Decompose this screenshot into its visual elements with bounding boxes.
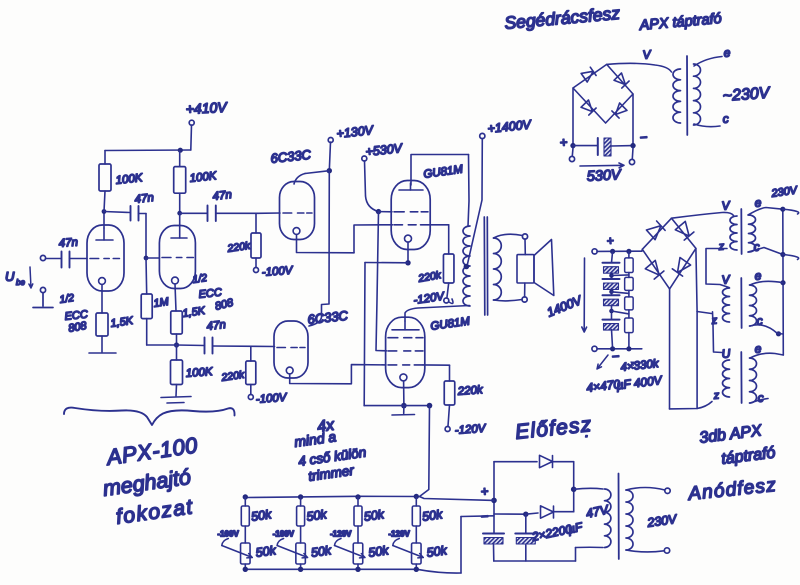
- wire T3 c stub: [750, 399, 768, 404]
- node res top: [626, 249, 631, 254]
- terminal 530V plus: [571, 148, 574, 156]
- wire diode2 c: [554, 511, 574, 513]
- svg-text:c: c: [722, 112, 729, 126]
- terminal T5 top: [665, 488, 670, 493]
- coil T3 primary: [723, 360, 730, 397]
- terminal +130V: [328, 138, 333, 143]
- svg-text:+530V: +530V: [365, 141, 404, 159]
- wire T5 sec top: [626, 488, 665, 491]
- svg-text:-100V: -100V: [217, 530, 239, 539]
- svg-text:1400V: 1400V: [545, 293, 585, 320]
- wire B1 north to T4: [607, 63, 672, 72]
- capacitor C3 47n: [205, 338, 213, 354]
- resistor R11 330k d: [625, 318, 634, 333]
- diode B1 SW: [581, 100, 596, 115]
- wire elofesz top rail left: [494, 461, 537, 463]
- svg-text:-100V: -100V: [255, 392, 288, 406]
- svg-text:−: −: [611, 348, 620, 364]
- wire V5 cathode down: [407, 242, 409, 263]
- wire B2 north to T1: [672, 212, 734, 218]
- resistor R8 220k: [251, 233, 261, 258]
- svg-text:1,5K: 1,5K: [110, 315, 135, 330]
- wire bottom to prim: [575, 548, 577, 562]
- svg-text:-120V: -120V: [413, 291, 446, 307]
- T1 core: [740, 209, 742, 254]
- svg-text:47n: 47n: [134, 192, 154, 206]
- svg-text:6C33C: 6C33C: [307, 308, 349, 327]
- svg-text:e: e: [723, 45, 731, 60]
- wire gu81m gnd to pots: [420, 406, 430, 497]
- bridge B1 outline: [573, 64, 633, 123]
- wire secondary top: [494, 234, 523, 238]
- wire T2z down to T3: [713, 312, 723, 353]
- wire T4 sec top to e: [694, 57, 722, 67]
- terminal cap bank top: [592, 249, 597, 254]
- svg-text:6C33C: 6C33C: [270, 147, 312, 166]
- wire R7 to V2 anode: [179, 193, 181, 213]
- V5 grid dashes row2: [394, 224, 428, 226]
- node +410V: [178, 148, 183, 153]
- terminal -100V upper: [254, 268, 259, 273]
- wire B1 plus to cap: [573, 145, 598, 147]
- wire +130V drop: [329, 142, 330, 171]
- V4 grid dashes: [277, 347, 305, 349]
- coil OPT secondary: [494, 238, 502, 300]
- svg-text:+130V: +130V: [336, 123, 375, 141]
- wire capbank to bridge: [641, 249, 644, 251]
- wire T3 e to bus: [750, 353, 783, 358]
- node B1 minus: [630, 143, 635, 148]
- tube V3 6C33C upper: [280, 182, 315, 240]
- wire secondary bottom: [494, 300, 523, 301]
- svg-text:z: z: [712, 390, 720, 403]
- wire T5 sec bottom: [626, 550, 664, 552]
- cap links: [612, 251, 613, 348]
- V6 grid dashes row3: [388, 364, 423, 366]
- arrow cap bank: [597, 355, 608, 369]
- cathode bus wire: [147, 344, 177, 346]
- wire right node to prim: [574, 487, 603, 490]
- wire 100K2 top: [179, 150, 181, 166]
- potentiometer P1 50k/50k -100V: [243, 494, 248, 499]
- svg-text:50k: 50k: [421, 507, 444, 524]
- resistor R5 100K: [171, 360, 183, 385]
- terminal 530V minus: [631, 148, 634, 159]
- node elofesz plus: [491, 498, 497, 504]
- pot top bus: [245, 496, 494, 500]
- bus 230V: [782, 209, 785, 355]
- wire grid node to V2: [146, 257, 160, 259]
- wire bus hook top: [783, 209, 799, 214]
- node elofesz right: [571, 487, 577, 493]
- svg-text:Anódfesz: Anódfesz: [686, 475, 778, 505]
- coil T5 primary: [605, 489, 611, 548]
- speaker cone: [534, 240, 554, 296]
- wire R9 to -120V: [447, 283, 449, 297]
- wire R1 to rail: [104, 151, 106, 165]
- terminal cap bank bottom: [592, 346, 597, 351]
- svg-text:47n: 47n: [212, 189, 232, 203]
- node bus2: [780, 252, 785, 257]
- wire V5 screen right: [428, 224, 449, 226]
- wire V6 anode to OPT: [405, 306, 470, 322]
- capacitor C5 530V: [597, 138, 599, 155]
- capacitor bank C6b: [603, 278, 620, 280]
- node cap bottom: [610, 346, 615, 351]
- svg-text:1/2: 1/2: [59, 292, 75, 306]
- svg-text:1/2: 1/2: [192, 272, 208, 286]
- coil T1 primary: [730, 216, 737, 250]
- capacitor C2 47n: [131, 206, 139, 221]
- svg-text:-120V: -120V: [330, 530, 352, 539]
- capacitor C4 47n: [208, 206, 216, 222]
- node bus4: [776, 331, 781, 336]
- terminal -120V lower: [445, 427, 450, 432]
- V6 anode bar: [392, 329, 419, 331]
- V3 cathode: [293, 228, 300, 235]
- +410V rail: [105, 149, 191, 152]
- input terminal: [40, 255, 45, 260]
- node V5 grid: [376, 209, 381, 214]
- svg-text:3db APX: 3db APX: [698, 422, 763, 447]
- terminal -100V lower: [248, 395, 253, 400]
- svg-text:50k: 50k: [306, 507, 329, 524]
- svg-text:mind a: mind a: [293, 428, 337, 450]
- wire V1a anode up: [103, 212, 105, 229]
- wire R3 bottom: [146, 319, 148, 345]
- wire grid node down to V6 grid: [376, 212, 387, 351]
- svg-text:GU81M: GU81M: [423, 164, 464, 181]
- node cap top: [610, 249, 615, 254]
- tube V5 GU81M upper: [391, 181, 430, 250]
- svg-text:-120V: -120V: [388, 530, 410, 539]
- V3 anode lead: [294, 174, 305, 185]
- wire pots to minus: [460, 517, 462, 574]
- wire elofesz right vert: [573, 462, 575, 512]
- svg-text:1M: 1M: [153, 296, 171, 310]
- node cap2 top: [523, 512, 528, 517]
- svg-text:1,5K: 1,5K: [182, 305, 207, 320]
- wire T2 c to bus: [750, 325, 783, 334]
- brace APX-100: [64, 408, 235, 425]
- ground symbol V6: [403, 406, 405, 414]
- svg-text:meghajtó: meghajtó: [101, 465, 192, 501]
- wire T1 e to bus: [748, 208, 783, 216]
- wire C7 bottom: [493, 545, 495, 561]
- wire V6 cathode down: [403, 381, 405, 406]
- tube V4 6C33C lower: [274, 321, 308, 378]
- svg-text:µF: µF: [567, 520, 584, 537]
- T3 core: [740, 352, 742, 403]
- wire elofesz diode2: [494, 513, 526, 515]
- wire R5 top: [176, 345, 178, 360]
- node V6 cathode: [401, 403, 407, 409]
- svg-text:100K: 100K: [115, 172, 144, 187]
- wire +530V to grid node: [365, 161, 379, 212]
- svg-text:50k: 50k: [250, 507, 273, 524]
- svg-text:47n: 47n: [206, 319, 226, 333]
- svg-text:47n: 47n: [58, 237, 78, 250]
- svg-text:530V: 530V: [586, 167, 622, 185]
- V3 grid dashes: [283, 212, 312, 214]
- V6 cathode: [400, 374, 407, 381]
- node OPT center tap: [464, 264, 470, 270]
- capacitor C8 2200uF: [515, 533, 536, 535]
- wire +1400V down: [468, 139, 483, 265]
- capacitor bank C6a: [603, 262, 620, 264]
- T2 core: [740, 278, 742, 328]
- ground R5: [161, 397, 191, 398]
- svg-text:+1400V: +1400V: [487, 117, 533, 136]
- svg-text:Előfesz: Előfesz: [514, 413, 593, 444]
- wire bus hook mid: [783, 255, 799, 260]
- coil T4 secondary: [694, 64, 701, 125]
- wire bottom to T3z: [670, 402, 713, 409]
- V2 cathode: [172, 277, 179, 284]
- node bus1: [780, 207, 785, 212]
- wire R3 top: [145, 258, 148, 294]
- svg-text:100K: 100K: [189, 170, 218, 185]
- arrow 1400V: [582, 258, 587, 332]
- svg-text:230V: 230V: [770, 184, 800, 200]
- wire OPT primary top feed: [468, 155, 469, 227]
- wire C3 to 6C33C grid: [213, 345, 275, 348]
- coil T2 primary: [723, 288, 730, 322]
- resistor R4 1,5K: [171, 311, 183, 334]
- resistor R3 1M: [141, 294, 152, 319]
- arrow 530V: [580, 163, 624, 168]
- V5 grid dashes row1: [394, 211, 428, 213]
- speaker driver: [524, 239, 526, 255]
- wire +410V terminal: [190, 125, 193, 150]
- svg-text:50k: 50k: [426, 543, 449, 560]
- diode B2 SE: [672, 258, 690, 277]
- svg-text:c: c: [753, 240, 760, 254]
- svg-text:U: U: [721, 346, 731, 361]
- svg-text:220k: 220k: [220, 369, 246, 384]
- wire input to C1: [46, 258, 62, 260]
- wire anode node to 100K: [104, 191, 105, 212]
- triode V2 ECC808: [159, 226, 195, 289]
- cap link dots: [609, 273, 614, 278]
- wire node to C2: [104, 212, 130, 213]
- svg-text:+410V: +410V: [185, 99, 228, 117]
- svg-text:fokozat: fokozat: [114, 495, 195, 529]
- wire B1 east down: [632, 94, 634, 146]
- terminal T5 bottom: [664, 548, 669, 553]
- coil T4 primary: [673, 69, 681, 123]
- node V2 grid: [144, 256, 149, 261]
- resistor R11 330k a: [625, 258, 634, 273]
- diode B2 NW: [646, 221, 665, 240]
- node B1 plus: [570, 143, 575, 148]
- wire diode2 b: [526, 513, 538, 514]
- svg-text:−: −: [639, 129, 648, 145]
- svg-text:µF 400V: µF 400V: [616, 373, 664, 393]
- V1a cathode: [99, 278, 106, 285]
- wire C8 top: [525, 514, 527, 533]
- svg-text:APX táptrafó: APX táptrafó: [638, 11, 722, 34]
- svg-text:+: +: [606, 234, 614, 248]
- wire elofesz top rail right: [553, 461, 574, 463]
- cap bank bottom rail: [597, 348, 642, 350]
- svg-text:c: c: [757, 391, 764, 405]
- resistor R2 1,5K: [96, 313, 108, 336]
- V5 cathode: [405, 235, 412, 242]
- wire V3 cathode up-right: [354, 225, 393, 253]
- terminal +410V: [189, 120, 194, 125]
- wire B2 east down2: [696, 312, 698, 409]
- diode D6: [541, 506, 554, 518]
- wire B2 south down: [669, 289, 671, 409]
- svg-text:+: +: [480, 483, 489, 499]
- wire V4 cathode path: [290, 365, 386, 384]
- capacitor bank C6d: [603, 319, 620, 321]
- cross links: [612, 275, 629, 314]
- diode B1 NW: [581, 67, 596, 82]
- wire B2 east down: [696, 248, 697, 311]
- T4 core: [686, 56, 688, 135]
- res links: [628, 251, 630, 348]
- diode D5: [540, 455, 553, 467]
- wire T1 c to bus: [748, 248, 783, 255]
- coil OPT primary: [463, 226, 470, 306]
- capacitor C1 47n: [62, 252, 70, 268]
- potentiometer P2 50k/50k -100V: [298, 494, 303, 499]
- wire C4 to 6C33C area: [216, 212, 258, 214]
- wire R8: [255, 213, 257, 233]
- svg-text:e: e: [754, 268, 762, 283]
- svg-text:220k: 220k: [226, 240, 252, 255]
- wire V5 cathode left: [365, 262, 408, 264]
- capacitor C7 2200uF: [483, 533, 504, 535]
- diode B1 SE: [612, 103, 627, 118]
- svg-text:4×330k: 4×330k: [620, 358, 660, 374]
- svg-text:-100V: -100V: [273, 530, 295, 539]
- wire R5 to ground: [175, 385, 178, 397]
- svg-text:U: U: [5, 269, 15, 284]
- node V5 cathode: [405, 260, 410, 265]
- svg-text:220k: 220k: [456, 384, 484, 398]
- diode B1 NE: [614, 73, 629, 88]
- V1a anode lead: [103, 228, 105, 240]
- wire grid node to V5: [379, 211, 393, 213]
- wire C5 to minus node: [611, 145, 633, 147]
- diode B2 SW: [645, 260, 664, 279]
- resistor R1 100K: [99, 164, 111, 191]
- terminal speaker top: [522, 234, 527, 239]
- V2 anode lead: [179, 227, 181, 238]
- terminal +530V: [362, 156, 367, 161]
- node V3 anode: [327, 168, 332, 173]
- potentiometer P4 50k/50k -120V: [414, 494, 419, 499]
- wire R10 to -120V: [448, 405, 450, 426]
- svg-text:V: V: [721, 272, 731, 287]
- svg-text:z: z: [710, 315, 718, 328]
- node bus3: [780, 280, 785, 285]
- wire B2 east to T2z: [697, 312, 711, 314]
- svg-text:50k: 50k: [255, 543, 278, 560]
- wire cathode to ground bus: [363, 263, 366, 406]
- terminal speaker bottom: [522, 297, 527, 302]
- wire C8 bottom: [525, 545, 527, 561]
- ground bus: [364, 405, 429, 407]
- svg-text:50k: 50k: [367, 543, 390, 560]
- V5 anode bar: [399, 189, 423, 191]
- wire V5 anode top: [411, 155, 469, 186]
- svg-text:50k: 50k: [363, 507, 386, 524]
- coil T2 secondary: [750, 285, 757, 326]
- node cathode bus: [174, 342, 179, 347]
- svg-text:~230V: ~230V: [722, 85, 771, 105]
- svg-text:táptrafó: táptrafó: [720, 444, 776, 467]
- wire anode diagonal: [305, 171, 329, 174]
- wire V3 cathode down: [297, 235, 355, 253]
- node ground bus right: [427, 403, 433, 409]
- ground terminal input: [40, 287, 45, 292]
- ground V1a cathode: [101, 336, 103, 352]
- resistor R9 220k upper: [443, 254, 454, 283]
- svg-text:808: 808: [67, 320, 88, 335]
- resistor R10 220k lower: [444, 381, 455, 405]
- elofesz bottom rail: [494, 560, 576, 562]
- svg-text:230V: 230V: [645, 512, 678, 530]
- wire V1a cathode to R2: [101, 285, 103, 314]
- OPT core lines: [483, 217, 486, 315]
- svg-text::: :: [585, 424, 589, 441]
- coil T1 secondary: [749, 215, 756, 252]
- coil T5 secondary: [626, 490, 633, 550]
- cap bank top rail: [597, 250, 642, 252]
- terminal -120V upper: [444, 298, 449, 303]
- wire B1 west down: [572, 88, 574, 146]
- V6 grid dashes row2: [388, 350, 423, 352]
- resistor R11 330k b: [625, 277, 634, 290]
- wire +130V to lower anode: [309, 171, 329, 326]
- svg-text:50k: 50k: [310, 543, 333, 560]
- wire elofesz left vert: [493, 462, 495, 534]
- T5 core: [618, 474, 620, 560]
- triode V1a ECC808: [87, 225, 124, 291]
- wire T1z to T2V: [706, 249, 729, 288]
- resistor R7 100K: [174, 167, 186, 194]
- V1a grid dashes: [90, 258, 119, 260]
- wire R6 top: [250, 347, 252, 362]
- pot bottom bus: [245, 569, 461, 573]
- svg-text:-100V: -100V: [261, 265, 294, 279]
- svg-text:100K: 100K: [185, 366, 214, 380]
- wire R6 to -100V: [250, 385, 252, 395]
- wire node to C4: [180, 212, 207, 214]
- svg-text:V: V: [642, 47, 652, 62]
- svg-text:z: z: [717, 241, 725, 254]
- svg-text:ECC: ECC: [198, 287, 222, 301]
- svg-text:V: V: [721, 198, 731, 213]
- tube V6 GU81M lower: [386, 317, 425, 387]
- wire C2 to grid node: [139, 213, 147, 215]
- svg-text:220k: 220k: [416, 269, 442, 285]
- svg-text:be: be: [16, 278, 25, 287]
- coil T3 secondary: [750, 358, 757, 403]
- resistor R6 220k: [246, 361, 256, 385]
- wire V2 cathode to R4: [175, 284, 176, 311]
- svg-text:GU81M: GU81M: [430, 316, 471, 333]
- wire V6 screen right: [423, 364, 450, 366]
- diode B2 NE: [675, 221, 694, 240]
- potentiometer P3 50k/50k -120V: [355, 494, 360, 499]
- V2 grid dashes: [162, 257, 193, 259]
- svg-text:+: +: [559, 134, 568, 150]
